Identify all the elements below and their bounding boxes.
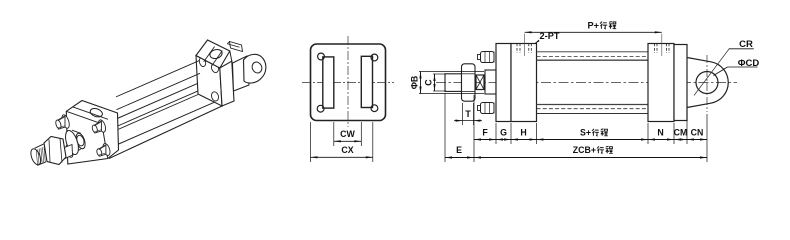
flange plate (311, 44, 386, 121)
bottom dim row 1: F G H S N CM CN (473, 95, 475, 144)
svg-text:ΦB: ΦB (410, 76, 420, 90)
svg-text:CW: CW (340, 129, 355, 139)
svg-text:S+: S+ (580, 128, 591, 138)
svg-text:T: T (465, 109, 471, 119)
svg-text:H: H (520, 128, 526, 138)
svg-text:2-PT: 2-PT (540, 31, 560, 41)
svg-text:CM: CM (674, 128, 688, 138)
iso head tie-rod nuts (97, 119, 107, 133)
iso cap top strips (204, 47, 215, 62)
svg-text:ZCB+: ZCB+ (573, 145, 596, 155)
clevis mount plate CM (674, 45, 687, 121)
flange centerlines (347, 36, 349, 127)
iso piston rod stub (65, 145, 73, 159)
iso far tie rod end cap (198, 57, 207, 68)
iso cap port hole (209, 48, 223, 60)
dim P+stroke (525, 31, 662, 33)
head gland plate G (496, 44, 511, 122)
iso clevis ear hole (250, 60, 263, 74)
left slot (323, 57, 334, 108)
side view: main centerline (436, 82, 737, 84)
clevis with eye (687, 58, 728, 108)
dim C (vertical) (433, 73, 446, 75)
iso tube top edge (116, 84, 197, 119)
rod gland boss (485, 70, 496, 94)
tie rods along tube (537, 51, 649, 53)
dim CX (310, 122, 312, 162)
eye centerlines (706, 55, 708, 112)
iso cap top face (196, 40, 230, 68)
iso clevis ear (233, 56, 250, 91)
iso rod threaded end (29, 147, 43, 166)
iso body far tie rod top (116, 60, 201, 97)
iso cap front face (196, 56, 222, 107)
cylinder tube (537, 59, 649, 61)
svg-text:P+: P+ (588, 21, 600, 31)
svg-text:CR: CR (739, 39, 753, 50)
iso body far tie rod bottom (117, 73, 201, 109)
iso cap nut boss upper (210, 62, 219, 73)
svg-text:F: F (482, 128, 488, 138)
svg-text:C: C (424, 79, 434, 86)
tie rod holes (318, 53, 325, 60)
dim PhiB (vertical, left) (419, 71, 484, 73)
rod wrench flats (X box) (476, 75, 484, 90)
bottom dim row 2: E ZCB (444, 93, 446, 162)
iso rod hex nut (44, 137, 66, 165)
dim T (462, 103, 464, 125)
iso rod gland discs (72, 130, 81, 133)
svg-text:G: G (500, 128, 507, 138)
iso near-top tie rod double line (117, 91, 198, 126)
iso head port ellipse (89, 107, 103, 118)
iso cap nut boss lower (210, 91, 219, 102)
head block H with port (511, 44, 537, 122)
iso head face right edge (102, 124, 108, 159)
iso bottom silhouette edge (109, 106, 222, 159)
dim CW (333, 122, 335, 146)
piston rod threaded end (445, 74, 462, 92)
iso head G|H top divider (73, 107, 109, 120)
right slot (361, 56, 372, 107)
svg-text:E: E (456, 145, 462, 155)
iso head block silhouette (66, 101, 118, 165)
head tie-rod nuts (481, 52, 495, 63)
rod hex nut (462, 64, 476, 101)
iso port boss behind cap (230, 42, 243, 52)
svg-text:N: N (657, 128, 663, 138)
cap block with port (648, 44, 674, 122)
clevis eye hole (696, 72, 718, 94)
svg-text:CN: CN (691, 128, 704, 138)
iso head top face front edge (66, 111, 102, 124)
iso tube bottom edge (118, 102, 215, 144)
iso CM plate (220, 61, 234, 106)
svg-text:CX: CX (341, 145, 353, 155)
